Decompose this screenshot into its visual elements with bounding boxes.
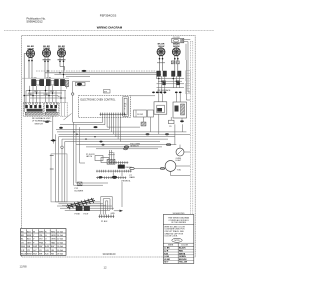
connector small CS1 bbox=[141, 117, 146, 126]
wire ground stub bbox=[111, 182, 124, 215]
wire sensor run bbox=[76, 145, 176, 149]
node blower label bbox=[75, 188, 84, 192]
wire header separator bbox=[4, 30, 214, 32]
oven control EOC bbox=[79, 96, 131, 118]
terminal block TB3 on raceway bbox=[186, 83, 191, 94]
svg-text:NOTE: NOTE bbox=[174, 240, 180, 242]
svg-text:12 GA: 12 GA bbox=[57, 241, 63, 244]
svg-text:BW: BW bbox=[51, 246, 54, 248]
connector CN1 bbox=[75, 206, 83, 215]
wire EOC stack verticals bbox=[108, 150, 122, 176]
svg-text:BROWN: BROWN bbox=[179, 259, 187, 261]
svg-text:5995402012: 5995402012 bbox=[27, 20, 43, 24]
svg-text:L1 H1: L1 H1 bbox=[32, 78, 37, 80]
svg-text:P4 W: P4 W bbox=[84, 214, 89, 216]
svg-text:23 BK: 23 BK bbox=[28, 94, 34, 96]
wire switch mesh bbox=[24, 86, 66, 103]
svg-text:RED: RED bbox=[179, 251, 184, 253]
node publication text bbox=[27, 17, 47, 24]
switch SW2 body bbox=[44, 102, 58, 116]
svg-text:ELECTRONIC OVEN CONTROL: ELECTRONIC OVEN CONTROL bbox=[81, 100, 117, 102]
switch SW1 terminals bbox=[32, 78, 44, 86]
svg-text:GRD: GRD bbox=[111, 213, 116, 215]
surface element SU2 label bbox=[43, 46, 50, 50]
wire bus A bbox=[36, 70, 157, 72]
surface element SU2 bbox=[42, 49, 50, 60]
connector ribbon CR1 bbox=[66, 198, 95, 209]
wire node OC stem bbox=[72, 81, 74, 122]
terminal block TB2 on raceway bbox=[186, 71, 191, 81]
svg-text:2400W: 2400W bbox=[173, 45, 180, 48]
surface element SU1 label bbox=[27, 46, 34, 50]
svg-text:WHT: WHT bbox=[39, 231, 44, 233]
svg-text:LATCH: LATCH bbox=[86, 155, 93, 158]
svg-text:BLU: BLU bbox=[27, 239, 31, 241]
wire right area verticals bbox=[186, 60, 190, 100]
node sensor label block bbox=[130, 143, 140, 147]
switch SW3 body partial bbox=[60, 102, 67, 116]
latch box LB1 bbox=[50, 154, 67, 202]
wire band H5 bbox=[65, 141, 160, 143]
wire busA bend bbox=[156, 71, 158, 79]
wire band H1 bbox=[57, 131, 186, 133]
wire band H3 bbox=[59, 136, 176, 138]
wire right mid verticals bbox=[151, 114, 183, 144]
connector small CS2 bbox=[169, 117, 175, 128]
junction band dots bbox=[73, 131, 95, 140]
svg-text:G GN: G GN bbox=[164, 256, 169, 258]
wire right switch mesh bbox=[157, 76, 185, 94]
switch SW3 terminals bbox=[60, 79, 68, 86]
wire bottom runs bbox=[56, 202, 114, 210]
svg-text:WIRING DIAGRAM: WIRING DIAGRAM bbox=[97, 25, 123, 29]
svg-text:YELLOW: YELLOW bbox=[179, 262, 187, 264]
surface element SU4 label bbox=[158, 44, 165, 48]
svg-text:P8 BROIL: P8 BROIL bbox=[122, 181, 132, 183]
wire SU2 leads bbox=[45, 57, 48, 79]
connector inline CI2 bbox=[124, 146, 128, 148]
svg-text:SWITCH: SWITCH bbox=[35, 124, 44, 126]
wire EOC drops bbox=[103, 116, 121, 142]
wire bus B bbox=[45, 72, 158, 74]
svg-text:BKW: BKW bbox=[27, 254, 32, 256]
svg-text:RED: RED bbox=[51, 231, 56, 233]
wire band H2 bbox=[59, 133, 191, 135]
node mesh wire labels bbox=[28, 91, 62, 98]
junction oval pair bbox=[99, 176, 103, 178]
relay board terminal row C bbox=[96, 176, 126, 179]
svg-text:P6: P6 bbox=[169, 126, 171, 128]
terminal row EOC bbox=[100, 113, 126, 116]
junction SU5 bbox=[174, 58, 179, 60]
wire bus C bbox=[54, 74, 161, 76]
junction switch mesh bbox=[23, 90, 61, 99]
svg-text:P1 BLK: P1 BLK bbox=[101, 221, 108, 223]
svg-text:Y-R: Y-R bbox=[21, 250, 25, 252]
svg-text:BLOWER: BLOWER bbox=[75, 190, 84, 192]
svg-text:12: 12 bbox=[104, 265, 108, 269]
junction bus crossing dots bbox=[47, 70, 64, 75]
relay K1 bbox=[73, 81, 90, 86]
wire nested loops bbox=[101, 197, 112, 215]
svg-text:12 GA: 12 GA bbox=[57, 238, 63, 241]
wire bus D bbox=[66, 76, 90, 78]
lock switch LSW bbox=[173, 93, 187, 118]
node OC bbox=[72, 93, 74, 95]
connector inline CI5 bbox=[130, 167, 134, 169]
surface element SU4 bbox=[157, 48, 165, 56]
surface element SU3 label bbox=[58, 46, 65, 50]
connector inline CI4 bbox=[160, 167, 164, 169]
svg-text:OF THIS SERIES: OF THIS SERIES bbox=[171, 222, 187, 224]
door switch box DS1 bbox=[134, 110, 147, 117]
svg-text:BLACK: BLACK bbox=[179, 247, 186, 250]
table wire chart bbox=[21, 229, 67, 256]
junction SU1 bbox=[28, 60, 33, 62]
node bake label bbox=[130, 175, 136, 179]
svg-text:WR: WR bbox=[39, 254, 43, 256]
motor TOD bbox=[165, 161, 182, 172]
connector inline CI1 bbox=[166, 144, 170, 146]
node latch label bbox=[86, 154, 95, 158]
svg-text:LIGHT: LIGHT bbox=[176, 160, 182, 162]
surface element SU3 bbox=[57, 49, 65, 60]
svg-text:L1 BK: L1 BK bbox=[164, 248, 170, 250]
switch SW5 terminals bbox=[172, 71, 182, 76]
svg-text:GRN: GRN bbox=[51, 235, 56, 237]
wire left feeders bbox=[74, 122, 109, 185]
svg-text:GREEN: GREEN bbox=[179, 256, 186, 258]
svg-text:L2 R: L2 R bbox=[164, 251, 169, 253]
node diagram frame bbox=[22, 36, 196, 257]
relay board terminal row B bbox=[96, 170, 132, 173]
svg-text:18 GA: 18 GA bbox=[57, 253, 63, 256]
svg-text:B-W: B-W bbox=[45, 246, 49, 248]
wire midleft drops bbox=[56, 134, 65, 202]
svg-text:P3 BK: P3 BK bbox=[75, 214, 81, 216]
relay RL1 bbox=[118, 165, 133, 169]
svg-text:H2 Y: H2 Y bbox=[164, 262, 169, 264]
junction oval J-left bbox=[44, 121, 52, 123]
junction oval LSW bbox=[180, 118, 184, 122]
svg-text:ORN: ORN bbox=[51, 239, 56, 241]
ground chassis symbol bbox=[50, 116, 56, 143]
wire SU5 leads bbox=[175, 56, 178, 71]
svg-text:RELAY: RELAY bbox=[126, 166, 133, 169]
svg-text:SUGGESTED: SUGGESTED bbox=[173, 213, 186, 215]
svg-text:14 GA: 14 GA bbox=[57, 234, 63, 237]
svg-text:TAN: TAN bbox=[51, 241, 55, 244]
wire SU1 leads bbox=[24, 53, 32, 112]
connector P5 bbox=[171, 61, 179, 64]
thermostat box TB1 bbox=[154, 94, 167, 115]
svg-text:R-W: R-W bbox=[33, 246, 37, 248]
svg-text:L1 H1: L1 H1 bbox=[46, 78, 51, 80]
connector EOC sensor header bbox=[123, 97, 129, 117]
svg-text:N W: N W bbox=[164, 253, 168, 255]
wire TOD leads bbox=[135, 166, 191, 176]
node broil label bbox=[122, 181, 132, 183]
junction SU3 bbox=[59, 61, 64, 63]
table info box bbox=[163, 213, 194, 264]
svg-text:RW: RW bbox=[39, 246, 42, 248]
wire diagonal jumper bbox=[64, 114, 72, 121]
junction SW5 dots bbox=[175, 92, 182, 94]
svg-text:W-B: W-B bbox=[21, 246, 26, 248]
svg-text:WHITE: WHITE bbox=[179, 253, 186, 255]
wire clock to raceway bbox=[176, 40, 190, 60]
svg-text:GRY: GRY bbox=[27, 242, 32, 244]
connector inline CI3 bbox=[124, 148, 128, 150]
door switch box DS2 bbox=[148, 110, 154, 117]
relay bank stepped bbox=[95, 156, 115, 165]
surface element SU5 bbox=[172, 48, 180, 56]
wire band fanout bbox=[56, 122, 140, 129]
svg-text:14 GA: 14 GA bbox=[57, 230, 63, 233]
wire lamp leads bbox=[180, 145, 190, 152]
svg-text:FEF354CGS: FEF354CGS bbox=[100, 13, 117, 17]
junction right switch mesh bbox=[158, 78, 180, 85]
svg-text:BK-W: BK-W bbox=[21, 254, 26, 256]
svg-text:TOD: TOD bbox=[177, 170, 182, 172]
svg-text:BLK: BLK bbox=[27, 231, 31, 233]
svg-text:16 GA: 16 GA bbox=[57, 245, 63, 248]
node midleft loop circle bbox=[61, 146, 63, 148]
switch SW5 contact bbox=[177, 81, 180, 86]
junction oval SW3 bbox=[59, 127, 63, 129]
surface element SU5 label bbox=[173, 44, 180, 48]
junction oval on bus bbox=[82, 70, 86, 72]
fuse FX bbox=[78, 182, 83, 186]
junction SU4 bbox=[159, 58, 164, 60]
junction right connector dots bbox=[152, 92, 166, 94]
surface element SU1 bbox=[26, 49, 34, 57]
svg-text:16 GA: 16 GA bbox=[57, 249, 63, 252]
junction SU2 bbox=[44, 61, 49, 63]
clock TM1 bbox=[172, 38, 184, 42]
svg-text:H1 BR: H1 BR bbox=[164, 259, 170, 261]
wire band H4 bbox=[62, 138, 168, 140]
terminal row bottom bbox=[99, 215, 115, 219]
svg-text:DR SW: DR SW bbox=[137, 114, 143, 116]
svg-text:W: W bbox=[33, 231, 35, 233]
junction ovals on band bbox=[146, 133, 170, 135]
svg-text:316203100: 316203100 bbox=[103, 252, 117, 256]
wire SU3 leads bbox=[60, 57, 65, 79]
connector CN2 bbox=[84, 206, 90, 215]
svg-text:SP1: SP1 bbox=[104, 91, 107, 93]
junction sensor dots bbox=[99, 141, 104, 146]
svg-text:BRN: BRN bbox=[27, 235, 32, 237]
svg-text:24 BK: 24 BK bbox=[44, 94, 50, 96]
svg-text:BAKE: BAKE bbox=[130, 176, 136, 179]
svg-text:W-R: W-R bbox=[33, 254, 38, 256]
svg-text:12/98: 12/98 bbox=[20, 264, 27, 268]
wire SU4 leads bbox=[157, 56, 165, 71]
connector oval CO1 bbox=[112, 176, 117, 179]
wire terminals top rail bbox=[22, 77, 69, 79]
svg-text:VIO: VIO bbox=[39, 239, 43, 241]
switch SW4 terminals bbox=[157, 71, 167, 76]
node right switch labels bbox=[158, 89, 172, 94]
fuse link F1 bbox=[66, 87, 68, 89]
svg-text:COLOR CODE.: COLOR CODE. bbox=[164, 236, 178, 238]
wire EOC to thermostat bbox=[131, 95, 156, 97]
node switch labels bbox=[32, 117, 51, 125]
relay board terminal row A bbox=[109, 161, 129, 164]
svg-text:PNK: PNK bbox=[39, 242, 44, 244]
switch SW4 contact bbox=[162, 81, 165, 86]
oven lamp L1 bbox=[176, 148, 184, 162]
switch SW2 terminals bbox=[46, 78, 58, 86]
svg-text:SENSOR: SENSOR bbox=[130, 146, 139, 148]
switch SW1 body bbox=[23, 102, 43, 116]
junction oval fan bbox=[94, 126, 98, 128]
splice box SPL bbox=[104, 90, 111, 94]
wire right raceway bbox=[190, 42, 193, 257]
